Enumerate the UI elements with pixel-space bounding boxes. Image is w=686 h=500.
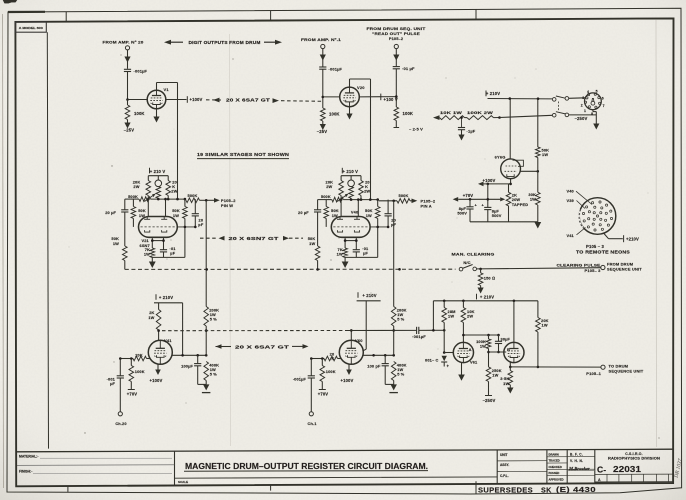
scan grain overlay <box>0 0 1 1</box>
svg-text:5 %: 5 % <box>397 317 405 322</box>
svg-text:+210V: +210V <box>626 237 639 242</box>
svg-text:22031: 22031 <box>613 465 642 474</box>
switch S2 man clearing <box>459 267 463 271</box>
fold mark tick top 1 <box>65 12 67 22</box>
svg-text:SCALE: SCALE <box>178 480 188 484</box>
svg-text:PASSED: PASSED <box>549 471 560 475</box>
neon lamp V21 <box>157 176 159 180</box>
svg-text:1W: 1W <box>542 152 548 157</box>
resistor 250K 1W <box>486 367 491 382</box>
svg-text:SEQUENCE UNIT: SEQUENCE UNIT <box>607 267 642 272</box>
coupling capacitor .001uF bus <box>416 327 418 334</box>
resistor 50K 1W outer left V21 <box>123 246 128 261</box>
svg-text:5 %: 5 % <box>210 317 218 322</box>
resistor 20K 2W left V40 <box>340 176 342 181</box>
left branch 20uF cap V21 <box>124 199 126 210</box>
riser to 6Y6G plate <box>509 99 511 159</box>
wire grid to V1 <box>128 99 148 101</box>
wire upper switch to socket pin3 <box>569 97 585 100</box>
svg-text:6SN7: 6SN7 <box>140 243 150 248</box>
svg-text:4: 4 <box>587 90 589 94</box>
svg-text:100 pF: 100 pF <box>367 363 381 368</box>
svg-text:K: K <box>332 356 335 361</box>
svg-text:RADIOPHYSICS DIVISION: RADIOPHYSICS DIVISION <box>608 457 661 461</box>
svg-text:Ch.1: Ch.1 <box>307 421 317 426</box>
arrowhead readout <box>393 55 399 61</box>
neon lamp V40 <box>350 176 352 180</box>
scan speckles <box>330 259 331 260</box>
output riser down V21 <box>205 200 207 306</box>
riser to 50K 1W <box>537 99 539 147</box>
cathode sub-rail V21 <box>151 237 153 248</box>
outer border thick start segment <box>8 11 45 13</box>
svg-text:+ 210 V: + 210 V <box>150 169 166 174</box>
fold mark tick bottom 2 <box>270 485 272 491</box>
resistor 50K 1W inner left V21 <box>131 207 136 219</box>
output resistor 500K V21 <box>186 198 200 203</box>
ground arrow 6Y6G rail <box>534 222 541 229</box>
svg-text:–25V: –25V <box>317 129 327 134</box>
capacitor .1uF bias <box>461 118 463 128</box>
tube B of V61 <box>504 342 524 362</box>
fold crease vertical right <box>655 20 658 447</box>
+210V rail top <box>488 98 553 100</box>
approvals box <box>566 450 568 483</box>
dashed line to 20pF node V21 <box>177 226 195 228</box>
svg-text:2W: 2W <box>326 184 332 189</box>
svg-text:5: 5 <box>596 90 598 94</box>
grid resistor 20K V41 <box>147 358 151 360</box>
left branch 20uF cap V40 <box>317 200 319 210</box>
svg-text:CHECKED: CHECKED <box>549 465 562 469</box>
fold mark tick bottom 3 <box>475 481 477 494</box>
wire input V1 <box>127 50 129 69</box>
svg-text:Ch.20: Ch.20 <box>115 421 126 426</box>
svg-text:TAPPED: TAPPED <box>512 202 528 207</box>
V61 A cathode ground <box>461 362 463 374</box>
svg-text:+ 210 V: + 210 V <box>342 169 358 174</box>
svg-text:100K 2W: 100K 2W <box>467 110 493 115</box>
tube 6Y6G <box>501 159 521 179</box>
svg-text:C.S.I.R.O.: C.S.I.R.O. <box>625 452 642 456</box>
resistor 7K 1W V40 <box>343 248 348 257</box>
svg-text:1W: 1W <box>503 381 509 386</box>
plate riser right V60 <box>365 301 367 349</box>
svg-text:001– C: 001– C <box>425 358 438 363</box>
wire C2 to V20 grid <box>322 69 324 108</box>
svg-text:100K: 100K <box>135 369 145 374</box>
svg-text:·01 µF: ·01 µF <box>402 66 415 71</box>
cathode sub-rail V40 <box>344 237 346 248</box>
capacitor .01uF readout <box>393 66 400 68</box>
svg-text:19 SIMILAR STAGES NOT SHOWN: 19 SIMILAR STAGES NOT SHOWN <box>197 152 289 157</box>
socket pin dots <box>610 217 612 219</box>
resistor 10K 2W <box>462 301 464 308</box>
terminal clearing pulse <box>601 265 605 269</box>
capacitor .01uF cathode V21 <box>160 249 167 251</box>
svg-text:5 %: 5 % <box>210 372 218 377</box>
terminal Ch.1 <box>309 412 313 416</box>
screen line V41 <box>172 354 206 356</box>
svg-text:1W: 1W <box>144 251 150 256</box>
supply +70V V41 <box>130 382 132 390</box>
svg-text:20 X 6SA7 GT: 20 X 6SA7 GT <box>235 344 290 349</box>
wire socket pin8 to -250V <box>592 110 594 112</box>
resistor 400K 1W 5% V60 <box>391 362 396 381</box>
svg-text:UNIT: UNIT <box>500 453 507 457</box>
svg-text:2: 2 <box>581 104 583 108</box>
fold mark tick bottom 1 <box>67 486 69 492</box>
resistor 100K readout <box>394 107 399 121</box>
svg-text:·001µF: ·001µF <box>412 334 426 339</box>
arrowhead input V1 <box>124 57 130 63</box>
output arrow PIN W <box>200 199 215 201</box>
wire clearing rail <box>477 268 601 269</box>
wire grid to V20 <box>323 96 340 98</box>
fold crease vertical left <box>230 34 231 446</box>
svg-text:+70V: +70V <box>463 193 474 198</box>
grid leads into tube V40 <box>340 196 342 217</box>
svg-text:7: 7 <box>603 104 605 108</box>
capacitor 30uF coupling <box>498 335 500 341</box>
V1 cathode ground arrow <box>156 109 158 117</box>
tube B plate riser <box>513 301 515 343</box>
svg-text:µF: µF <box>363 251 368 256</box>
bus 20 X 6SN7 GT dashed <box>200 237 218 239</box>
digit outputs label <box>164 40 171 45</box>
svg-text:TRACED: TRACED <box>549 459 560 463</box>
node bias junction <box>498 116 501 119</box>
svg-text:100K: 100K <box>329 112 340 117</box>
capacitor C2 .001uF <box>319 66 326 68</box>
wire V1 plate output <box>166 99 187 101</box>
capacitor 20pF V40 <box>387 200 389 214</box>
supply +70V V60 <box>321 382 323 390</box>
node plate junction V41 <box>158 330 160 340</box>
svg-text:V61: V61 <box>470 360 478 365</box>
grid line to tube B <box>489 351 507 353</box>
svg-text:µF: µF <box>170 251 175 256</box>
svg-text:V20: V20 <box>357 85 365 90</box>
capacitor .001uF input V41 <box>119 359 121 376</box>
svg-text:B: B <box>507 347 510 352</box>
resistor 50K 1W inner right V21 <box>183 207 188 219</box>
tube V60 <box>339 340 363 364</box>
svg-text:V. H. N.: V. H. N. <box>570 459 583 463</box>
capacitor V41 bypass <box>197 355 199 363</box>
svg-text:100K: 100K <box>134 111 145 116</box>
6Y6G screen wire to 50K <box>520 170 537 172</box>
supply line V40 <box>341 175 361 177</box>
scan smudge top-left corner <box>3 0 17 3</box>
resistor 50K 1W outer left V40 <box>315 246 320 261</box>
svg-text:V1: V1 <box>164 87 170 92</box>
ground arrow cathode V21 <box>151 257 153 261</box>
ground earth V41 <box>198 383 207 385</box>
svg-text:2W: 2W <box>364 189 370 194</box>
svg-text:M.Brooker: M.Brooker <box>568 466 590 471</box>
resistor 20K 2W left V21 <box>147 176 149 181</box>
svg-text:100K: 100K <box>326 369 336 374</box>
svg-text:ASSY.: ASSY. <box>500 463 510 467</box>
svg-text:+70V: +70V <box>318 392 329 397</box>
supply -25V stage1 <box>124 123 130 129</box>
svg-text:2W: 2W <box>171 189 177 194</box>
unit box <box>496 450 498 483</box>
wire V20 plate to readout node <box>359 96 396 98</box>
svg-text:+ 210V: + 210V <box>362 293 376 298</box>
resistor 20K 2W right V40 <box>360 176 362 181</box>
svg-text:500K: 500K <box>399 193 409 198</box>
wire 10K to 100K <box>465 117 468 119</box>
svg-text:SUPERSEDES: SUPERSEDES <box>478 486 533 495</box>
svg-text:APPROVED: APPROVED <box>549 478 564 482</box>
svg-text:P105– 3: P105– 3 <box>585 268 602 273</box>
svg-text:500K: 500K <box>188 193 198 198</box>
6Y6G screen notch <box>513 160 524 166</box>
output arrow PIN A <box>410 200 412 202</box>
terminal Ch.20 <box>118 412 122 416</box>
svg-text:V40: V40 <box>567 188 574 193</box>
grid leads into tube V21 <box>147 196 149 217</box>
screen line V60 <box>363 354 394 356</box>
svg-text:P105–2: P105–2 <box>389 36 404 41</box>
ground arrow 3.5K <box>509 385 511 388</box>
arrowhead input V20 <box>320 55 326 61</box>
svg-text:1W: 1W <box>173 213 179 218</box>
tick +100V stage20 <box>380 94 382 101</box>
V1 plate riser wire <box>156 83 158 91</box>
tap arrow lamp V40 <box>337 195 347 202</box>
svg-text:500K: 500K <box>128 194 138 199</box>
V20 plate riser wire <box>349 79 351 87</box>
svg-text:– 2·5 V: – 2·5 V <box>409 127 423 132</box>
svg-text:·001µF: ·001µF <box>134 69 148 74</box>
left drop to grid bus <box>432 301 434 331</box>
svg-text:6Y6G: 6Y6G <box>495 155 506 160</box>
plate riser right V41 <box>182 303 184 356</box>
svg-text:V41: V41 <box>164 338 172 343</box>
drawing number box top-left <box>15 22 46 32</box>
grid bus junctions V61 <box>433 329 444 331</box>
switch S1 lower <box>552 113 556 117</box>
resistor 30K 1W <box>536 192 541 205</box>
plate lead V60 <box>350 330 352 340</box>
grid node V41 <box>120 358 133 360</box>
svg-text:1W: 1W <box>366 213 372 218</box>
node 210 rail b <box>537 97 540 100</box>
paper edge line left <box>2 14 5 488</box>
grid node V60 <box>311 358 324 360</box>
ground arrow bias cap <box>458 135 464 141</box>
resistor 50K 1W right of 6Y6G <box>536 147 541 158</box>
resistor 20K 1W output <box>537 301 539 318</box>
svg-text:V40: V40 <box>351 209 358 214</box>
bottom dashed rail stage row <box>125 268 456 270</box>
tube A of V61 <box>453 342 473 362</box>
wire 28M to grid node <box>443 323 445 353</box>
resistor 3.5K 1W <box>508 371 513 385</box>
supply -250V V61 <box>488 382 490 396</box>
terminal readout <box>394 44 398 48</box>
ground earth V60 <box>385 383 394 385</box>
bus solid part to V61 <box>347 329 417 331</box>
svg-text:DRAWN: DRAWN <box>549 452 559 456</box>
node readout junction <box>395 95 398 98</box>
svg-text:–250V: –250V <box>575 116 588 121</box>
wire bias junction to switch <box>500 115 553 117</box>
svg-text:CLEARING PULSE: CLEARING PULSE <box>557 262 601 267</box>
resistor 200K 1W 5% V60 <box>391 307 396 327</box>
fold mark tick top 2 <box>270 11 272 21</box>
svg-text:2W: 2W <box>467 314 473 319</box>
tap arrow into 2K <box>500 197 505 201</box>
svg-text:V39: V39 <box>567 198 575 203</box>
ground arrow cathode V40 <box>344 257 346 261</box>
svg-text:+100V: +100V <box>190 97 203 102</box>
wire 10K to tube A plate <box>462 323 464 343</box>
tube B cathode lead <box>509 362 511 367</box>
resistor 2K 20W tapped <box>506 192 511 206</box>
svg-text:1W: 1W <box>309 241 315 246</box>
capacitor 8uF 500V first <box>469 199 471 207</box>
capacitor V60 bypass <box>384 355 386 363</box>
revision strip <box>595 473 673 475</box>
resistor 150 ohm <box>480 269 482 273</box>
svg-text:1W: 1W <box>492 373 498 378</box>
svg-text:1W: 1W <box>480 344 486 349</box>
svg-text:500K: 500K <box>321 194 331 199</box>
tap arrow lamp V21 <box>145 195 155 202</box>
svg-text:DIGIT OUTPUTS FROM DRUM: DIGIT OUTPUTS FROM DRUM <box>189 40 261 45</box>
V20 cathode ground arrow <box>349 107 351 114</box>
svg-text:1W: 1W <box>337 251 343 256</box>
svg-text:+100V: +100V <box>150 378 163 383</box>
node V1 grid junction <box>126 98 129 101</box>
svg-text:V60: V60 <box>355 338 363 343</box>
resistor 100K 1W V61 <box>488 335 490 339</box>
wire lower switch to -250V node <box>569 114 597 116</box>
svg-text:20 µF: 20 µF <box>105 210 116 215</box>
wire readout down <box>395 49 397 67</box>
bus label bottom <box>216 346 232 348</box>
svg-text:150 Ω: 150 Ω <box>484 276 495 281</box>
scale row <box>175 477 498 478</box>
supply -2.5V readout <box>395 121 397 128</box>
resistor 50K 1W inner right V40 <box>375 207 380 219</box>
svg-text:1W: 1W <box>148 315 154 320</box>
material finish box <box>174 451 176 486</box>
node V20 grid junction <box>322 96 325 99</box>
svg-text:20K: 20K <box>135 352 143 357</box>
tick +100V stage1 <box>186 96 188 103</box>
svg-text:+70V: +70V <box>127 392 138 397</box>
svg-text:1W: 1W <box>113 241 119 246</box>
svg-text:3: 3 <box>582 96 584 100</box>
wire grid node to tube A <box>444 352 453 354</box>
output riser down V40 <box>393 201 395 307</box>
switch mechanical link dashed <box>558 102 560 112</box>
node 210 rail a <box>509 97 512 100</box>
supply -25V stage20 <box>320 124 326 130</box>
title block top line <box>16 449 673 452</box>
fold mark tick top 3 <box>475 9 477 19</box>
svg-text:+ 210V: + 210V <box>480 295 494 300</box>
svg-text:20 X 6SN7 GT: 20 X 6SN7 GT <box>229 236 280 241</box>
svg-text:500V: 500V <box>492 213 502 218</box>
dashed line to 20pF node V40 <box>370 226 388 228</box>
cathode to +100V V60 <box>348 364 350 369</box>
svg-text:+: + <box>447 363 450 368</box>
resistor 7K 1W V21 <box>150 248 155 257</box>
svg-text:MATERIAL:-: MATERIAL:- <box>19 454 39 458</box>
svg-text:P105 – 3: P105 – 3 <box>586 244 604 249</box>
svg-text:FROM AMP. Nº.1: FROM AMP. Nº.1 <box>301 37 342 42</box>
svg-text:·1µF: ·1µF <box>467 129 476 134</box>
tube V20 <box>340 87 360 107</box>
bus 20 X 6SA7 GT bottom dashed <box>162 330 347 332</box>
svg-text:30µF: 30µF <box>501 336 511 341</box>
svg-text:B. F. C.: B. F. C. <box>570 452 583 456</box>
wire 100K2W to junction <box>494 117 500 119</box>
supply +100V 6Y6G <box>478 182 484 187</box>
svg-text:500V: 500V <box>457 210 467 215</box>
capacitor 8uF 500V second <box>484 206 491 208</box>
grid rail V40 <box>318 199 332 201</box>
resistor 100K grid V60 <box>321 359 323 366</box>
wire C1 to grid node <box>127 72 129 100</box>
svg-text:2W: 2W <box>133 184 139 189</box>
svg-text:MAGNETIC DRUM–OUTPUT REGISTE: MAGNETIC DRUM–OUTPUT REGISTER CIRCUIT DI… <box>185 462 428 471</box>
resistor 50K 1W inner left V40 <box>324 207 329 219</box>
grid resistor 20K V60 <box>338 358 342 360</box>
svg-text:N/C: N/C <box>463 260 470 265</box>
left margin column line <box>47 32 48 448</box>
6Y6G cathode lead <box>510 179 512 184</box>
ground rail 6Y6G <box>470 221 538 223</box>
capacitor .001uF input V60 <box>310 359 312 376</box>
tube V40 6SN7 envelope <box>331 217 370 238</box>
supply -250V socket <box>595 112 597 124</box>
switch S1 upper <box>552 98 556 102</box>
svg-text:C.P.L.: C.P.L. <box>500 474 509 478</box>
svg-text:–25V: –25V <box>124 128 134 133</box>
svg-text:1W: 1W <box>530 197 536 202</box>
svg-text:(E) 4430: (E) 4430 <box>556 485 596 494</box>
resistor 200K 1W 5% V41 <box>204 307 209 327</box>
arrowhead bias chain left <box>433 115 440 120</box>
svg-text:100K: 100K <box>403 111 414 116</box>
supply +70V <box>453 197 459 202</box>
svg-text:+ 210V: + 210V <box>486 91 500 96</box>
svg-text:+100V: +100V <box>341 378 354 383</box>
supply +210V neon <box>623 235 625 242</box>
resistor 20K 2W right V21 <box>167 176 169 181</box>
resistor 28M 1W <box>443 301 445 308</box>
svg-text:A: A <box>469 347 472 352</box>
svg-text:20 µF: 20 µF <box>298 210 309 215</box>
svg-text:MAN. CLEARING: MAN. CLEARING <box>452 251 495 256</box>
resistor 2K 1W V41 <box>158 303 160 310</box>
svg-text:SK: SK <box>541 485 552 494</box>
svg-text:µF: µF <box>110 381 115 386</box>
svg-text:–250V: –250V <box>483 398 496 403</box>
svg-text:pF: pF <box>198 222 204 227</box>
svg-text:SEQUENCE UNIT: SEQUENCE UNIT <box>609 369 644 374</box>
svg-text:+100V: +100V <box>483 178 496 183</box>
bus 20 X 6SA7 GT dashed <box>206 99 221 101</box>
supply line V21 <box>148 175 168 177</box>
